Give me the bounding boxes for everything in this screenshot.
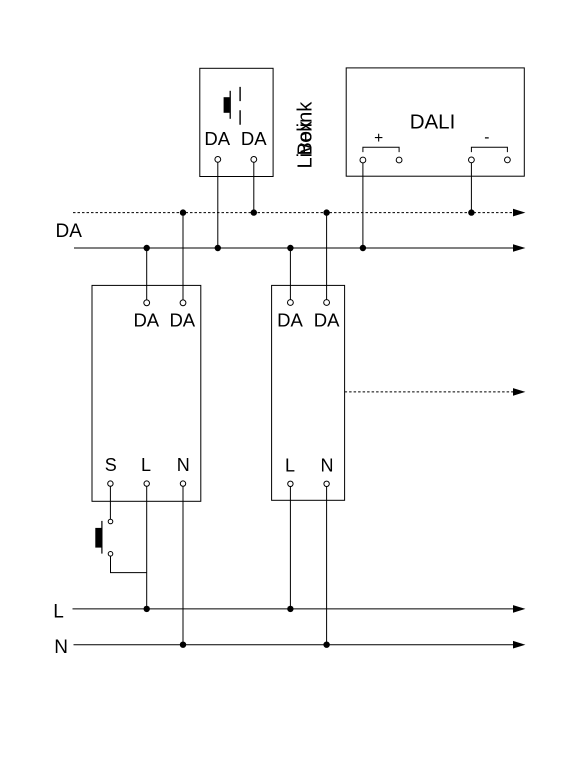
junction A2 DA1 / DA- bus xyxy=(287,245,293,251)
svg-text:L: L xyxy=(141,455,151,475)
svg-text:DA: DA xyxy=(133,309,159,330)
wire A1 DA2 to DA+ bus xyxy=(182,213,184,300)
terminal A2 L xyxy=(288,481,293,486)
switch S2 button cap xyxy=(95,528,101,548)
junction A1 L / mains L xyxy=(144,606,150,612)
wire U2 plus to DA- bus xyxy=(362,163,364,248)
terminal U2 minus B xyxy=(505,157,511,163)
svg-text:+: + xyxy=(374,130,383,147)
wire switch S2 to L wire xyxy=(111,556,147,573)
DALI driver A2 box xyxy=(272,285,345,500)
svg-text:N: N xyxy=(321,455,334,475)
junction U2 plus / DA- bus xyxy=(360,245,366,251)
svg-text:DA: DA xyxy=(56,221,83,242)
switch S2 contact bottom xyxy=(108,552,113,557)
svg-text:L: L xyxy=(285,455,295,475)
junction U2 minus / DA+ bus xyxy=(468,209,474,215)
svg-text:DA: DA xyxy=(241,128,267,149)
svg-text:DALI: DALI xyxy=(410,110,456,133)
arrowhead DA- bus xyxy=(513,244,525,252)
pushbutton S1 button cap xyxy=(224,97,230,113)
arrowhead broadcast xyxy=(513,388,525,396)
wire U1 DA2 to DA+ bus xyxy=(253,162,255,212)
arrowhead mains L xyxy=(513,605,525,613)
svg-text:DA: DA xyxy=(277,310,303,331)
wire A2 DA1 to DA- bus xyxy=(289,248,291,300)
terminal U1 DA2 xyxy=(251,157,257,163)
junction U1 DA2 / DA+ bus xyxy=(251,209,257,215)
broadcast dashed arrow from A2 xyxy=(345,391,514,393)
terminal A1 L xyxy=(144,481,149,486)
junction A2 DA2 / DA+ bus xyxy=(323,209,329,215)
control module U1 (Livelink pushbutton coupler) box xyxy=(200,68,273,176)
wire U1 DA1 to DA- bus xyxy=(217,162,219,248)
wire A1 S to switch S2 xyxy=(109,486,111,519)
wire A1 N to mains N xyxy=(182,486,184,644)
terminal A2 DA1 xyxy=(288,300,294,306)
pushbutton S1 lever xyxy=(229,91,231,119)
wire A2 DA2 to DA+ bus xyxy=(326,213,328,300)
svg-text:DA: DA xyxy=(204,128,230,149)
junction U1 DA1 / DA- bus xyxy=(215,245,221,251)
terminal A2 N xyxy=(324,481,329,486)
terminal A2 DA2 xyxy=(324,300,330,306)
mains line L xyxy=(73,608,515,610)
arrowhead DA+ bus xyxy=(513,209,525,217)
DALI driver A1 box xyxy=(92,285,201,501)
svg-text:DA: DA xyxy=(314,310,340,331)
terminal U2 plus A xyxy=(360,157,366,163)
svg-text:DA: DA xyxy=(169,309,195,330)
bracket minus terminals xyxy=(471,147,507,152)
junction A1 DA2 / DA+ bus xyxy=(180,209,186,215)
terminal A1 DA2 xyxy=(180,300,186,306)
svg-text:L: L xyxy=(53,602,64,623)
junction A2 N / mains N xyxy=(323,642,329,648)
svg-text:S: S xyxy=(105,455,117,475)
svg-text:-: - xyxy=(484,129,489,146)
svg-text:N: N xyxy=(177,455,190,475)
pushbutton S1 contact (dashed) xyxy=(239,87,241,125)
DALI bus DA- (solid) xyxy=(74,247,514,249)
terminal U2 plus B xyxy=(396,157,402,163)
terminal U2 minus A xyxy=(469,157,475,163)
DALI bus DA+ (dashed) xyxy=(73,212,514,214)
wire A1 DA1 to DA- bus xyxy=(146,248,148,300)
svg-text:N: N xyxy=(54,637,68,658)
junction A1 DA1 / DA- bus xyxy=(144,245,150,251)
terminal A1 N xyxy=(180,481,185,486)
terminal A1 DA1 xyxy=(144,300,150,306)
arrowhead mains N xyxy=(513,641,525,649)
wire A2 N to mains N xyxy=(326,487,328,645)
DALI power supply U2 box xyxy=(346,68,524,176)
switch S2 contact top xyxy=(108,519,113,524)
bracket + terminals xyxy=(363,147,399,152)
switch S2 lever xyxy=(101,521,103,554)
terminal U1 DA1 xyxy=(215,157,221,163)
terminal A1 S xyxy=(108,481,113,486)
wire A2 L to mains L xyxy=(289,487,291,609)
svg-text:Box: Box xyxy=(295,121,317,155)
mains line N xyxy=(74,644,515,646)
junction A1 N / mains N xyxy=(180,642,186,648)
junction A2 L / mains L xyxy=(287,606,293,612)
wire U2 minus to DA+ bus xyxy=(470,163,472,213)
wire A1 L to mains L xyxy=(146,486,148,609)
